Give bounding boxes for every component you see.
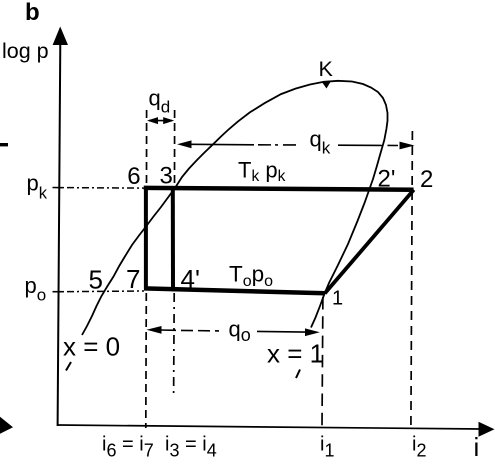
q_d right arrowhead bbox=[163, 117, 174, 124]
q_k dimension line right part bbox=[338, 144, 383, 146]
svg-text:4': 4' bbox=[181, 264, 200, 294]
thick line 6-7 bbox=[144, 186, 148, 288]
dashed guide i2 bbox=[411, 131, 413, 429]
tick p_k on y-axis bbox=[53, 187, 63, 189]
thick compression line 1-2 bbox=[325, 190, 414, 294]
dotted guide line p_k bbox=[62, 187, 144, 190]
x-axis arrowhead bbox=[479, 422, 495, 437]
q_k dimension line left part bbox=[190, 143, 254, 146]
svg-text:7: 7 bbox=[126, 264, 140, 294]
direction arrow below K bbox=[322, 81, 332, 89]
svg-text:K: K bbox=[319, 57, 334, 81]
q_k left arrowhead bbox=[177, 140, 192, 148]
q_o left arrowhead bbox=[147, 326, 162, 334]
tick below x = 1 bbox=[296, 370, 300, 379]
thick line 3-4' bbox=[171, 188, 175, 292]
svg-text:x = 1: x = 1 bbox=[267, 339, 324, 369]
q_d dimension line bbox=[149, 120, 172, 122]
thick isobar p_k (6-3-2'-2) bbox=[144, 188, 414, 190]
dashed guide i3=i4 lower segment bbox=[173, 293, 176, 397]
q_o dimension line left dashes bbox=[181, 329, 219, 332]
q_k right dash bbox=[388, 144, 399, 146]
svg-text:i: i bbox=[474, 432, 480, 462]
svg-text:1: 1 bbox=[332, 288, 343, 310]
q_o dimension line left part bbox=[160, 329, 176, 331]
svg-text:5: 5 bbox=[89, 265, 103, 295]
saturation dome (x=0 and x=1 branches) bbox=[82, 81, 388, 335]
svg-text:2: 2 bbox=[420, 166, 433, 193]
dashed guide i1 bbox=[321, 297, 324, 428]
y-axis bbox=[58, 42, 61, 426]
tick p_o on y-axis bbox=[53, 291, 63, 293]
y-axis arrowhead bbox=[53, 27, 68, 46]
dashed guide i6=i7 lower segment bbox=[145, 293, 148, 428]
q_o dimension line right part bbox=[257, 330, 306, 333]
left edge dash bbox=[0, 143, 8, 146]
svg-text:log p: log p bbox=[2, 39, 49, 63]
svg-text:3: 3 bbox=[160, 163, 173, 190]
x-axis bbox=[58, 425, 481, 429]
thick isobar p_o (7-4'-1) bbox=[144, 288, 325, 293]
q_k right arrowhead bbox=[400, 142, 415, 150]
q_k dimension line middle dashes bbox=[258, 144, 299, 146]
tick below x = 0 bbox=[66, 362, 71, 371]
svg-text:x = 0: x = 0 bbox=[63, 332, 120, 362]
svg-text:b: b bbox=[25, 0, 40, 26]
dashed guide i6=i7 upper segment bbox=[146, 110, 148, 186]
svg-text:2': 2' bbox=[378, 165, 396, 192]
q_o right arrowhead bbox=[305, 328, 320, 336]
left margin arrowhead bbox=[0, 417, 13, 434]
dotted guide line p_o bbox=[62, 290, 144, 293]
q_d left arrowhead bbox=[147, 117, 158, 124]
svg-text:6: 6 bbox=[127, 163, 140, 190]
dashed guide i3=i4 upper segment bbox=[174, 110, 176, 187]
